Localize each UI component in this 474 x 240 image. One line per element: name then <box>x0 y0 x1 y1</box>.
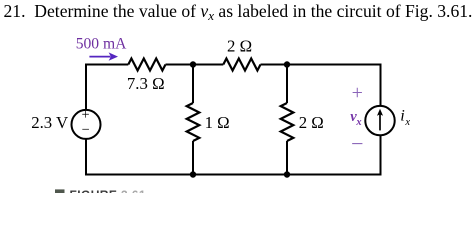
node dot: top of 1ohm branch <box>190 61 196 67</box>
wire: top-right horizontal segment <box>261 64 381 66</box>
svg-text:2 Ω: 2 Ω <box>227 37 252 56</box>
svg-text:x: x <box>404 117 410 128</box>
wire: 2ohm branch lower lead <box>286 141 288 175</box>
svg-text:+: + <box>352 82 363 104</box>
svg-text:500 mA: 500 mA <box>76 36 127 53</box>
svg-text:FIGURE 3.61: FIGURE 3.61 <box>70 188 146 193</box>
current source ix circle <box>365 106 394 135</box>
voltage source V 2.3V circle <box>72 110 101 139</box>
wire: right vertical (top) <box>380 64 382 107</box>
svg-text:2 Ω: 2 Ω <box>299 113 324 132</box>
wire: between 7.3ohm and 2ohm <box>166 64 224 66</box>
figure caption square (cut off at bottom) <box>55 189 65 195</box>
wire: 1ohm branch lower lead <box>192 141 194 175</box>
svg-text:x: x <box>355 117 361 128</box>
resistor 2ohm zigzag (vertical) <box>281 103 294 141</box>
svg-text:1 Ω: 1 Ω <box>205 113 230 132</box>
wire: top-left horizontal segment <box>86 64 128 66</box>
wire: left vertical (top) <box>85 64 87 111</box>
current source arrow (up) <box>379 114 381 130</box>
node dot: top of 2ohm branch <box>284 61 290 67</box>
wire: 1ohm branch upper lead <box>192 65 194 104</box>
node dot: bottom of 1ohm branch <box>190 171 196 177</box>
title <box>4 1 474 24</box>
wire: 2ohm branch upper lead <box>286 65 288 104</box>
svg-text:−: − <box>351 131 363 156</box>
wire: right vertical (bottom) <box>380 135 382 175</box>
resistor 2ohm (top) zigzag <box>223 59 260 71</box>
resistor 1ohm zigzag (vertical) <box>187 103 200 141</box>
svg-text:2.3 V: 2.3 V <box>31 113 68 132</box>
wire: bottom horizontal <box>85 174 381 176</box>
current direction arrow (purple) <box>89 56 110 58</box>
wire: left vertical (bottom) <box>85 139 87 176</box>
svg-text:−: − <box>82 122 90 138</box>
resistor 7.3ohm zigzag <box>128 59 165 71</box>
svg-text:+: + <box>81 107 89 123</box>
svg-text:7.3 Ω: 7.3 Ω <box>127 74 165 93</box>
node dot: bottom of 2ohm branch <box>284 171 290 177</box>
